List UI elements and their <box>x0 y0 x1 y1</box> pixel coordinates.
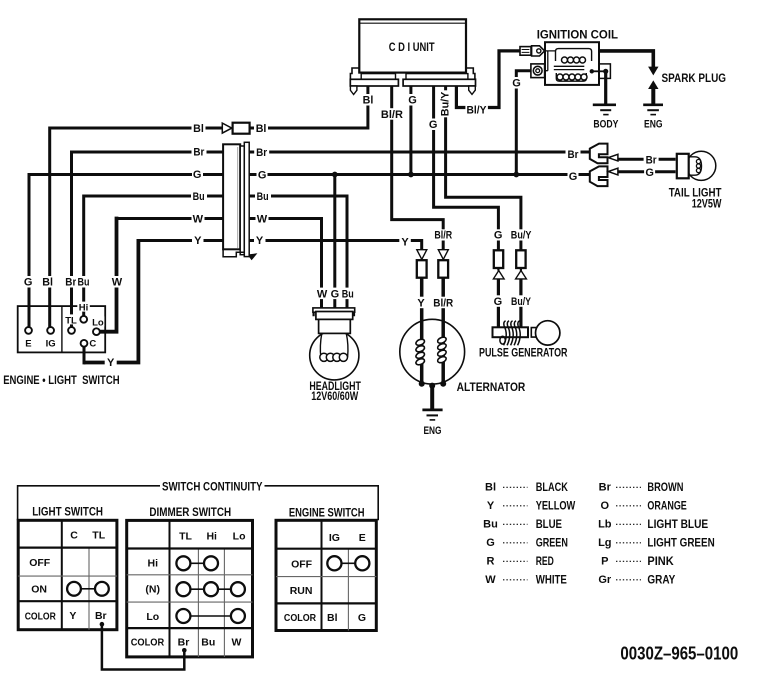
svg-text:Lo: Lo <box>92 317 104 328</box>
svg-text:BLACK: BLACK <box>536 480 568 494</box>
bullet connector Bl/R barrel <box>438 260 448 278</box>
switch terminal TL <box>68 327 75 334</box>
wire G: pulse connector tick <box>497 268 499 271</box>
ignition coil secondary winding loops <box>557 74 587 80</box>
svg-text:TL: TL <box>65 316 77 327</box>
svg-text:P: P <box>601 556 608 568</box>
label G (ignition coil lead) <box>511 77 523 90</box>
svg-text:Bu: Bu <box>483 519 498 531</box>
svg-text:Bl: Bl <box>485 482 496 494</box>
svg-text:ENG: ENG <box>644 119 663 131</box>
wire G: harness left to switch E terminal <box>29 175 223 328</box>
wire Y: down from harness, left along bottom <box>84 241 138 363</box>
label G (left of connector) <box>192 168 203 181</box>
label Bu/Y (pulse lead) <box>510 295 534 308</box>
tail light filament loops <box>696 159 700 172</box>
wire G: connector to pulse generator <box>497 279 500 328</box>
label Bl/Y (CDI pin 6) <box>465 104 488 117</box>
label Bl (above switch) <box>41 276 54 289</box>
svg-text:COLOR: COLOR <box>25 610 56 622</box>
ground ENG symbol (alternator) <box>422 408 442 411</box>
label Y (left of connector) <box>192 234 204 247</box>
pulse generator rotor <box>536 321 560 345</box>
svg-text:PULSE GENERATOR: PULSE GENERATOR <box>479 346 568 360</box>
svg-text:Bl/R: Bl/R <box>381 109 403 121</box>
wire Bl/R: bullet to alternator coil <box>441 277 445 383</box>
wire Bu/Y: CDI pin 5 down, right, down to connector <box>446 86 521 250</box>
tail light bulb <box>687 151 716 180</box>
tail light connector triangle G <box>608 168 618 175</box>
svg-text:ENGINE • LIGHT SWITCH: ENGINE • LIGHT SWITCH <box>3 373 119 387</box>
svg-text:WHITE: WHITE <box>536 573 567 587</box>
svg-text:Bu: Bu <box>193 191 205 203</box>
svg-text:G: G <box>429 119 438 131</box>
svg-text:Bu: Bu <box>257 191 269 203</box>
wire Bu/Y: connector tick <box>520 268 522 271</box>
svg-text:Bu/Y: Bu/Y <box>511 296 532 308</box>
svg-text:W: W <box>231 636 241 648</box>
label Br (right of connector) <box>254 146 269 159</box>
svg-text:G: G <box>486 537 495 549</box>
connector block left housing <box>223 144 240 249</box>
svg-text:Bu: Bu <box>342 288 354 300</box>
label Bu/Y (above pulse connector) <box>509 229 533 241</box>
headlight socket band lower <box>319 319 351 333</box>
label G (above pulse connector) <box>493 229 505 241</box>
svg-text:Lo: Lo <box>146 611 159 623</box>
label Bu (above switch) <box>76 276 92 289</box>
svg-text:Y: Y <box>256 235 264 247</box>
svg-text:O: O <box>601 500 610 512</box>
svg-text:Bl/R: Bl/R <box>434 230 452 242</box>
connector block bottom arrow <box>249 253 257 260</box>
light switch table column lines <box>61 520 63 629</box>
label Br (tail light left) <box>566 148 581 161</box>
pulse generator body <box>493 327 529 337</box>
label W (right of connector) <box>256 213 269 226</box>
svg-text:Bl: Bl <box>363 95 374 107</box>
label Bl/R (alternator lead) <box>432 297 455 310</box>
svg-text:Hi: Hi <box>148 558 159 570</box>
ignition coil primary winding outline <box>556 49 592 61</box>
pulse generator winding arcs <box>500 321 520 346</box>
label Br (left of connector) <box>192 146 207 159</box>
engine-light switch divider <box>61 306 63 352</box>
tail light socket <box>677 154 689 179</box>
svg-text:G: G <box>494 230 503 242</box>
label G (headlight) <box>330 288 341 301</box>
light switch table row lines <box>18 546 117 548</box>
svg-text:W: W <box>112 277 123 289</box>
junction dot alternator center <box>429 383 435 389</box>
svg-text:SWITCH CONTINUITY: SWITCH CONTINUITY <box>162 479 263 493</box>
ignition coil secondary output link <box>592 70 606 72</box>
label W (headlight) <box>316 288 329 301</box>
svg-text:Y: Y <box>69 610 76 622</box>
label Y (right of connector) <box>254 234 266 247</box>
dimmer Hi row contacts <box>176 556 190 570</box>
wire Bl: bullet to harness, down to switch IG terminal <box>50 128 223 327</box>
wire G: CDI pin 4 down, right, down to pulse generator connector <box>434 86 499 250</box>
svg-text:Y: Y <box>107 357 115 369</box>
ground ENG symbol (spark plug) <box>643 104 663 107</box>
switch terminal E <box>25 327 32 334</box>
svg-text:BLUE: BLUE <box>536 517 562 531</box>
svg-text:Lo: Lo <box>233 531 246 543</box>
svg-text:Bu: Bu <box>201 636 215 648</box>
label Bl (right of bullet) <box>254 122 268 135</box>
svg-text:Y: Y <box>194 235 202 247</box>
label Y (alternator lead) <box>415 297 427 310</box>
wire: ignition coil HT output to spark plug <box>599 51 654 67</box>
headlight bulb <box>310 331 359 380</box>
junction dot alternator left <box>419 381 425 387</box>
legend leader lines column 1 <box>503 487 528 580</box>
svg-text:ORANGE: ORANGE <box>647 499 686 513</box>
alternator coil Y loops <box>415 338 425 366</box>
wire: spark plug lower electrode to ENG ground <box>651 89 655 105</box>
junction dot coil body lead <box>603 69 608 74</box>
wire Y: harness left <box>137 239 224 242</box>
svg-text:E: E <box>25 338 31 349</box>
svg-text:C D I UNIT: C D I UNIT <box>389 40 435 54</box>
headlight envelope lines <box>320 333 348 357</box>
engine-light switch box <box>18 306 106 352</box>
connector block right housing <box>244 142 249 256</box>
svg-text:E: E <box>359 532 366 544</box>
svg-text:Hi: Hi <box>79 303 89 314</box>
CDI connector left strip <box>361 74 395 80</box>
junction dot light switch Br <box>100 622 105 627</box>
svg-text:IGNITION COIL: IGNITION COIL <box>537 28 618 42</box>
label G (right of connector) <box>257 169 268 182</box>
svg-text:IG: IG <box>46 338 56 349</box>
connector block bottom step <box>223 249 244 256</box>
headlight socket band upper <box>316 312 353 320</box>
svg-text:RED: RED <box>536 554 554 568</box>
svg-text:W: W <box>193 214 204 226</box>
spark plug lower electrode arrow <box>648 80 658 89</box>
junction dot alternator right <box>440 381 446 387</box>
label G (tail light left) <box>568 171 579 184</box>
svg-text:ENGINE SWITCH: ENGINE SWITCH <box>289 505 365 519</box>
wire Bl: CDI pin 1 down and left to bullet connector <box>250 86 368 128</box>
bullet connector G triangle (pulse) <box>493 271 504 279</box>
label Bu (left of connector) <box>191 190 207 203</box>
switch continuity bracket <box>18 486 379 521</box>
svg-text:12V60/60W: 12V60/60W <box>311 389 358 403</box>
wire Br: harness left to switch TL terminal <box>72 152 224 327</box>
svg-text:OFF: OFF <box>29 557 51 569</box>
wire G: CDI pin 3 down to G line junction <box>409 86 412 175</box>
svg-text:IG: IG <box>329 532 340 544</box>
wire Y: connector right to alternator bullet <box>249 241 422 250</box>
wire Y: bullet to alternator coil <box>420 277 424 383</box>
junction dot coil secondary <box>590 69 594 73</box>
svg-text:W: W <box>485 574 496 586</box>
svg-text:PINK: PINK <box>647 554 674 568</box>
label Y (switch C wire) <box>105 356 117 369</box>
CDI connector left clip <box>350 68 359 79</box>
headlight socket flange <box>313 308 355 312</box>
engine switch table column lines <box>321 520 323 630</box>
spark plug upper electrode arrow <box>648 67 658 76</box>
svg-text:G: G <box>645 167 654 179</box>
svg-text:LIGHT SWITCH: LIGHT SWITCH <box>32 505 103 519</box>
ignition coil core lines <box>554 66 585 69</box>
svg-text:SPARK PLUG: SPARK PLUG <box>662 71 727 85</box>
label G (above switch) <box>23 276 34 289</box>
wire Bl/Y: CDI pin 6 to ignition coil primary <box>456 51 520 108</box>
svg-text:Br: Br <box>256 147 268 159</box>
svg-text:(N): (N) <box>145 583 160 595</box>
wire: alternator center to ENG ground <box>430 386 434 410</box>
CDI connector right bar <box>403 79 475 86</box>
svg-text:G: G <box>193 169 202 181</box>
switch terminal Hi <box>80 316 87 323</box>
svg-text:Br: Br <box>599 482 612 494</box>
label G (CDI pin 4) <box>427 119 439 132</box>
svg-text:C: C <box>70 530 78 542</box>
wire Bu: connector right, down to headlight <box>249 196 347 308</box>
svg-text:LIGHT BLUE: LIGHT BLUE <box>647 517 708 531</box>
dimmer N row contacts <box>176 582 190 596</box>
svg-text:Gr: Gr <box>598 574 612 586</box>
wire W: down and left to switch Lo terminal <box>100 217 117 332</box>
label G (CDI pin 3) <box>407 94 419 107</box>
svg-text:GREEN: GREEN <box>536 536 568 550</box>
label switch terminal Hi <box>77 302 90 314</box>
svg-text:Y: Y <box>401 237 409 249</box>
svg-text:W: W <box>257 214 268 226</box>
pulse generator rotor tab <box>531 328 538 338</box>
bullet connector Bl barrel <box>233 123 250 134</box>
label G (tail light right) <box>644 166 655 179</box>
wire Bu/Y: connector to pulse generator <box>519 279 522 328</box>
svg-text:G: G <box>258 170 267 182</box>
svg-text:Bu: Bu <box>78 277 90 289</box>
ignition coil secondary winding outline <box>556 73 586 81</box>
tail light connector cup G <box>590 166 608 186</box>
ignition coil inner feed <box>545 51 556 71</box>
ignition coil ring terminal eyelet <box>533 66 542 75</box>
svg-text:COLOR: COLOR <box>284 612 317 624</box>
wire G: connector to tail light socket <box>618 170 676 173</box>
junction dot G/CDI pin3 <box>408 172 414 178</box>
label Bu (headlight) <box>341 288 356 301</box>
svg-text:R: R <box>487 556 495 568</box>
label G (pulse lead) <box>492 295 504 308</box>
connector block middle housing <box>240 146 244 255</box>
svg-text:W: W <box>317 288 328 300</box>
svg-text:G: G <box>358 612 366 624</box>
ignition coil primary winding loops <box>562 57 586 63</box>
svg-text:Bu/Y: Bu/Y <box>511 230 532 242</box>
junction dot G/headlight <box>332 172 338 178</box>
svg-text:ALTERNATOR: ALTERNATOR <box>457 380 526 394</box>
svg-text:C: C <box>89 339 96 350</box>
alternator coil Bl/R loops <box>437 336 447 364</box>
wire Br: connector to tail light socket <box>618 158 676 161</box>
wire: ignition coil BODY ground <box>604 71 607 104</box>
svg-text:Br: Br <box>178 636 190 648</box>
connector block shading <box>237 147 239 248</box>
dimmer Lo row contacts <box>176 609 190 623</box>
svg-text:Y: Y <box>487 500 495 512</box>
ignition coil box <box>545 42 599 85</box>
label Br (above switch) <box>63 276 78 289</box>
svg-text:Br: Br <box>193 147 205 159</box>
tail light connector cup Br <box>590 144 608 164</box>
label W (above switch) <box>111 276 124 289</box>
switch terminal IG <box>47 327 54 334</box>
bullet connector Bl/R triangle <box>438 250 448 260</box>
ignition coil spade lug hole <box>537 49 541 53</box>
alternator circle <box>400 319 465 384</box>
wire: light switch Br to dimmer switch Br <box>102 624 184 669</box>
CDI connector left bar <box>350 79 398 86</box>
svg-text:YELLOW: YELLOW <box>536 499 576 513</box>
label Bl/R (CDI pin 2) <box>379 108 404 121</box>
CDI unit lid line <box>359 22 466 24</box>
wire G: ignition coil to G line junction <box>516 71 531 175</box>
bullet connector Bu/Y triangle (pulse) <box>516 271 527 279</box>
light switch ON contacts <box>67 582 81 596</box>
wire W: connector right, down to headlight <box>249 219 321 309</box>
label Bu/Y (CDI pin 5, vertical) <box>439 90 452 117</box>
switch terminal Lo <box>93 328 100 335</box>
bullet connector Y triangle <box>417 250 427 260</box>
wire G: junction down to headlight <box>333 175 336 309</box>
label Y (mid harness) <box>399 236 411 249</box>
svg-text:G: G <box>494 296 503 308</box>
svg-text:G: G <box>24 277 33 289</box>
CDI connector right strip <box>406 74 468 80</box>
tail light connector triangle Br <box>608 154 618 161</box>
label switch terminal Lo <box>92 316 105 328</box>
engine switch table row lines <box>276 548 376 550</box>
dimmer switch table frame <box>127 520 253 657</box>
svg-text:12V5W: 12V5W <box>692 197 722 211</box>
ground BODY symbol <box>593 104 616 107</box>
svg-text:0030Z–965–0100: 0030Z–965–0100 <box>620 644 738 664</box>
svg-text:Br: Br <box>95 610 107 622</box>
svg-text:Lb: Lb <box>598 519 612 531</box>
svg-text:Lg: Lg <box>598 537 611 549</box>
label Bl (CDI pin 1) <box>361 94 374 107</box>
wire Br: main harness connector to tail light <box>249 151 589 154</box>
svg-text:OFF: OFF <box>291 558 313 570</box>
svg-text:G: G <box>408 95 417 107</box>
label switch terminal TL <box>65 314 78 326</box>
CDI connector left hook <box>350 86 357 95</box>
svg-text:COLOR: COLOR <box>131 636 165 648</box>
wire Bl/R: CDI pin 2 down, right, down to bullet <box>392 86 444 250</box>
CDI connector right clip <box>466 68 475 79</box>
svg-text:Bl: Bl <box>256 123 267 135</box>
svg-text:RUN: RUN <box>290 585 313 597</box>
bullet connector Bu/Y barrel (pulse) <box>516 250 525 268</box>
engine switch OFF contacts <box>327 556 341 570</box>
svg-text:Br: Br <box>646 154 658 166</box>
ignition coil spade lug <box>532 46 545 56</box>
svg-text:TL: TL <box>179 531 192 543</box>
svg-text:Bl: Bl <box>193 123 204 135</box>
svg-text:Bu/Y: Bu/Y <box>440 91 452 116</box>
legend leader lines column 2 <box>616 487 641 580</box>
svg-text:G: G <box>331 288 340 300</box>
wire W: harness left <box>117 217 224 220</box>
junction dot dimmer switch Br <box>182 648 187 653</box>
svg-text:Bl: Bl <box>327 612 338 624</box>
label Bu (right of connector) <box>255 190 271 203</box>
svg-text:BODY: BODY <box>593 119 619 131</box>
svg-text:Y: Y <box>417 297 425 309</box>
wire Bu: harness left to switch Hi terminal <box>84 196 223 316</box>
svg-text:GRAY: GRAY <box>647 573 675 587</box>
bullet connector Y barrel <box>417 260 427 278</box>
svg-text:Bl/Y: Bl/Y <box>467 105 488 117</box>
svg-text:TL: TL <box>92 530 105 542</box>
svg-text:Bl/R: Bl/R <box>433 297 453 309</box>
bullet connector Bl triangle <box>222 123 232 133</box>
CDI unit box <box>359 19 466 72</box>
svg-text:Bl: Bl <box>42 277 53 289</box>
svg-text:G: G <box>512 78 521 90</box>
svg-text:DIMMER SWITCH: DIMMER SWITCH <box>149 505 231 519</box>
engine switch table frame <box>276 520 376 630</box>
ignition coil spade terminal <box>520 47 531 56</box>
svg-text:Hi: Hi <box>206 531 217 543</box>
dimmer switch table column lines <box>169 520 171 657</box>
ignition coil HT terminal box <box>599 64 611 79</box>
CDI connector right hook <box>469 86 476 94</box>
svg-text:BROWN: BROWN <box>647 480 683 494</box>
wire Y: up to switch C terminal <box>83 347 86 365</box>
label Br (tail light right) <box>644 154 659 167</box>
svg-text:ON: ON <box>31 584 47 596</box>
ignition coil spade crimp lines <box>522 50 530 53</box>
label Bl/R (above bullet) <box>433 229 454 241</box>
light switch table frame <box>18 520 117 629</box>
tail light filament envelope <box>689 157 702 175</box>
wire G: main harness connector to tail light <box>249 173 589 176</box>
ignition coil ring terminal <box>531 64 545 78</box>
headlight filament loops <box>320 353 348 361</box>
switch terminal C <box>81 340 88 347</box>
dimmer switch table row lines <box>127 547 253 549</box>
junction dot G/ignition coil <box>513 172 519 178</box>
svg-text:LIGHT GREEN: LIGHT GREEN <box>647 536 714 550</box>
svg-text:G: G <box>569 171 578 183</box>
bullet connector G barrel (pulse) <box>494 250 503 268</box>
label Bl (left of bullet) <box>192 122 206 135</box>
svg-text:Br: Br <box>65 277 77 289</box>
svg-text:ENG: ENG <box>424 425 442 437</box>
label W (left of connector) <box>192 213 205 226</box>
svg-text:Br: Br <box>568 149 580 161</box>
